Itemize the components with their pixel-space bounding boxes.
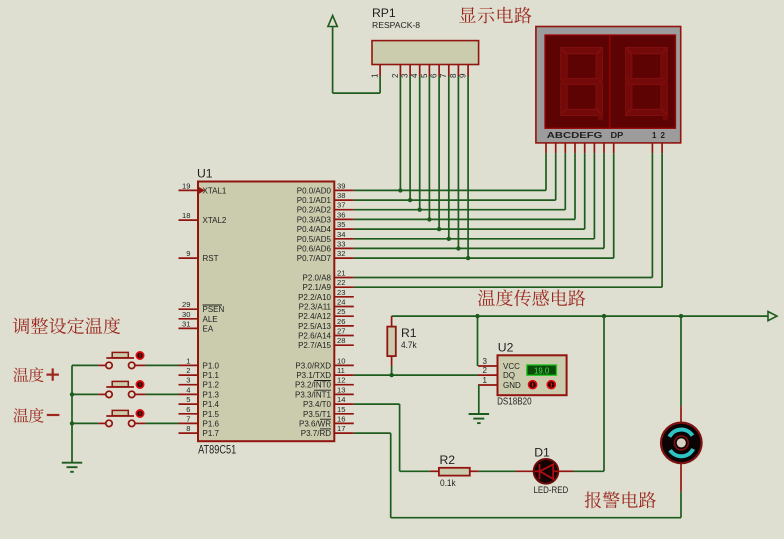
svg-text:4: 4 [410,73,419,78]
svg-text:P3.2/INT0: P3.2/INT0 [295,381,332,390]
svg-text:R2: R2 [440,453,456,467]
svg-text:U2: U2 [498,341,514,355]
svg-text:ALE: ALE [203,315,218,324]
svg-text:14: 14 [337,395,345,404]
svg-text:11: 11 [337,366,345,375]
svg-text:26: 26 [337,317,345,326]
svg-text:2: 2 [483,366,488,375]
svg-text:P1.5: P1.5 [203,410,220,419]
svg-text:4.7k: 4.7k [401,339,417,350]
svg-text:XTAL1: XTAL1 [203,186,227,195]
svg-text:34: 34 [337,230,345,239]
svg-text:19: 19 [182,181,190,190]
svg-text:P3.0/RXD: P3.0/RXD [295,361,331,370]
svg-text:P0.3/AD3: P0.3/AD3 [297,215,332,224]
svg-text:1: 1 [371,73,380,78]
svg-text:P2.3/A11: P2.3/A11 [299,303,332,312]
svg-text:35: 35 [337,220,345,229]
svg-text:P0.7/AD7: P0.7/AD7 [297,254,332,263]
svg-text:P3.7/RD: P3.7/RD [301,429,331,438]
svg-text:LED-RED: LED-RED [534,485,569,495]
svg-text:U1: U1 [197,167,213,181]
svg-text:6: 6 [186,405,190,414]
svg-text:P2.7/A15: P2.7/A15 [298,341,331,350]
svg-text:18: 18 [182,211,190,220]
svg-text:R1: R1 [401,326,417,340]
svg-text:8: 8 [449,73,458,78]
svg-text:33: 33 [337,239,345,248]
svg-text:ABCDEFG: ABCDEFG [547,131,603,140]
svg-text:1: 1 [483,376,488,385]
svg-text:P3.5/T1: P3.5/T1 [303,410,332,419]
svg-text:P2.4/A12: P2.4/A12 [298,312,331,321]
svg-text:37: 37 [337,201,345,210]
svg-text:D1: D1 [534,446,550,460]
svg-text:36: 36 [337,210,345,219]
svg-text:XTAL2: XTAL2 [203,216,227,225]
svg-text:DP: DP [611,131,625,140]
svg-text:21: 21 [337,269,345,278]
svg-text:DS18B20: DS18B20 [497,395,532,407]
svg-text:9: 9 [186,249,190,258]
svg-text:P0.2/AD2: P0.2/AD2 [297,206,332,215]
svg-text:25: 25 [337,307,345,316]
svg-text:P0.4/AD4: P0.4/AD4 [297,225,332,234]
svg-text:32: 32 [337,249,345,258]
svg-text:2: 2 [661,131,666,140]
svg-text:17: 17 [337,424,345,433]
svg-text:P3.3/INT1: P3.3/INT1 [295,390,332,399]
svg-text:8: 8 [186,424,190,433]
svg-text:P0.1/AD1: P0.1/AD1 [297,196,332,205]
svg-text:P0.5/AD5: P0.5/AD5 [297,235,332,244]
svg-text:27: 27 [337,327,345,336]
svg-text:P3.6/WR: P3.6/WR [299,419,331,428]
svg-text:P1.4: P1.4 [203,400,220,409]
svg-text:3: 3 [401,73,410,78]
svg-text:P2.1/A9: P2.1/A9 [303,283,332,292]
svg-text:6: 6 [430,73,439,78]
svg-text:P3.4/T0: P3.4/T0 [303,400,332,409]
svg-text:1: 1 [652,131,657,140]
svg-text:EA: EA [203,324,214,333]
svg-text:39: 39 [337,181,345,190]
svg-text:P2.2/A10: P2.2/A10 [298,293,331,302]
svg-text:GND: GND [503,381,521,390]
svg-text:2: 2 [186,366,190,375]
svg-text:P1.1: P1.1 [203,371,220,380]
svg-text:38: 38 [337,191,345,200]
svg-text:0.1k: 0.1k [440,477,456,488]
svg-text:VCC: VCC [503,362,520,371]
svg-text:P1.2: P1.2 [203,381,220,390]
svg-text:31: 31 [182,319,190,328]
svg-text:19.0: 19.0 [534,367,550,376]
svg-text:10: 10 [337,356,345,365]
svg-text:7: 7 [186,414,190,423]
svg-text:P0.0/AD0: P0.0/AD0 [297,186,332,195]
svg-text:28: 28 [337,336,345,345]
svg-text:RST: RST [203,254,219,263]
svg-text:DQ: DQ [503,371,515,380]
svg-text:5: 5 [186,395,190,404]
svg-text:P2.6/A14: P2.6/A14 [298,332,331,341]
svg-text:P2.0/A8: P2.0/A8 [303,274,332,283]
svg-text:2: 2 [391,73,400,78]
svg-text:12: 12 [337,376,345,385]
svg-text:3: 3 [186,376,190,385]
svg-text:RESPACK-8: RESPACK-8 [372,20,420,30]
svg-text:P2.5/A13: P2.5/A13 [298,322,331,331]
svg-text:3: 3 [483,357,488,366]
svg-text:P1.6: P1.6 [203,419,220,428]
svg-text:9: 9 [459,73,468,78]
svg-text:7: 7 [439,73,448,78]
svg-text:AT89C51: AT89C51 [198,442,236,456]
svg-text:4: 4 [186,385,190,394]
svg-text:RP1: RP1 [372,6,396,20]
svg-text:24: 24 [337,298,345,307]
svg-text:16: 16 [337,414,345,423]
svg-text:5: 5 [420,73,429,78]
svg-text:29: 29 [182,300,190,309]
svg-text:22: 22 [337,278,345,287]
svg-text:13: 13 [337,385,345,394]
svg-text:P1.0: P1.0 [203,361,220,370]
svg-text:PSEN: PSEN [203,305,225,314]
svg-text:30: 30 [182,310,190,319]
svg-text:P1.3: P1.3 [203,390,220,399]
svg-text:P1.7: P1.7 [203,429,220,438]
svg-text:P3.1/TXD: P3.1/TXD [296,371,331,380]
svg-text:23: 23 [337,288,345,297]
svg-text:P0.6/AD6: P0.6/AD6 [297,244,332,253]
svg-text:15: 15 [337,405,345,414]
svg-text:1: 1 [186,356,190,365]
